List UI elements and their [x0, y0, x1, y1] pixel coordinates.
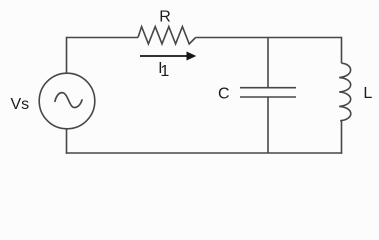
wire top-right horizontal segment: [196, 37, 342, 39]
wire right vertical lower segment: [341, 121, 343, 154]
label R: [159, 8, 171, 25]
svg-text:C: C: [218, 86, 230, 103]
label I1: [158, 60, 169, 80]
label Vs: [11, 96, 30, 113]
label L: [363, 85, 372, 102]
wire capacitor branch upper: [267, 38, 269, 88]
wire right vertical upper segment: [341, 37, 343, 64]
wire top-left horizontal segment: [67, 37, 139, 39]
svg-text:I1: I1: [158, 60, 169, 80]
wire left vertical lower segment: [66, 129, 68, 154]
wire bottom horizontal: [66, 152, 343, 154]
wire left vertical upper segment: [66, 37, 68, 74]
svg-text:R: R: [159, 8, 171, 25]
svg-text:L: L: [363, 85, 372, 102]
voltage source Vs: [39, 73, 95, 129]
capacitor C: [240, 88, 296, 97]
resistor R: [138, 27, 196, 44]
current arrow I1: [140, 52, 196, 61]
wire capacitor branch lower: [267, 97, 269, 153]
label C: [218, 86, 230, 103]
inductor L: [339, 63, 351, 121]
svg-text:Vs: Vs: [11, 96, 30, 113]
